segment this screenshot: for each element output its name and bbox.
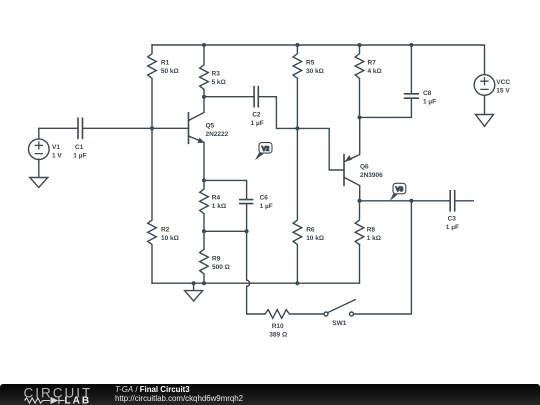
svg-text:10 kΩ: 10 kΩ	[161, 235, 179, 242]
svg-text:1 µF: 1 µF	[446, 224, 459, 231]
svg-text:R2: R2	[161, 227, 170, 234]
svg-text:389 Ω: 389 Ω	[269, 332, 287, 339]
svg-text:2N3906: 2N3906	[360, 172, 383, 179]
svg-text:15 V: 15 V	[496, 88, 510, 95]
svg-text:2N2222: 2N2222	[206, 131, 229, 138]
svg-text:1 kΩ: 1 kΩ	[212, 203, 226, 210]
svg-text:C1: C1	[75, 144, 84, 151]
svg-text:R5: R5	[306, 60, 315, 67]
svg-text:R4: R4	[212, 195, 221, 202]
svg-text:4 kΩ: 4 kΩ	[368, 68, 382, 75]
svg-text:C6: C6	[260, 195, 269, 202]
svg-text:C3: C3	[448, 216, 457, 223]
svg-text:1 µF: 1 µF	[260, 203, 273, 210]
svg-text:50 kΩ: 50 kΩ	[161, 68, 179, 75]
svg-text:1 µF: 1 µF	[423, 99, 436, 106]
svg-text:VCC: VCC	[496, 79, 510, 86]
svg-text:R3: R3	[212, 71, 221, 78]
svg-text:1 µF: 1 µF	[73, 153, 86, 160]
svg-text:Q5: Q5	[206, 123, 215, 130]
svg-text:C8: C8	[423, 90, 432, 97]
svg-text:10 kΩ: 10 kΩ	[306, 235, 324, 242]
svg-text:V2: V2	[262, 145, 270, 152]
svg-text:V3: V3	[396, 186, 404, 193]
svg-text:1 kΩ: 1 kΩ	[367, 235, 381, 242]
svg-text:R7: R7	[368, 60, 377, 67]
svg-text:1 V: 1 V	[52, 153, 62, 160]
svg-text:R1: R1	[161, 60, 170, 67]
svg-text:1 µF: 1 µF	[251, 120, 264, 127]
svg-text:LAB: LAB	[65, 396, 92, 405]
svg-text:R8: R8	[367, 227, 376, 234]
svg-text:30 kΩ: 30 kΩ	[306, 68, 324, 75]
svg-text:V1: V1	[52, 144, 60, 151]
svg-text:500 Ω: 500 Ω	[212, 264, 230, 271]
svg-text:R10: R10	[272, 323, 284, 330]
svg-text:R9: R9	[212, 256, 221, 263]
svg-text:SW1: SW1	[332, 320, 346, 327]
svg-text:5 kΩ: 5 kΩ	[212, 79, 226, 86]
svg-text:Q6: Q6	[360, 164, 369, 171]
svg-text:R6: R6	[306, 227, 315, 234]
svg-text:C2: C2	[252, 112, 261, 119]
